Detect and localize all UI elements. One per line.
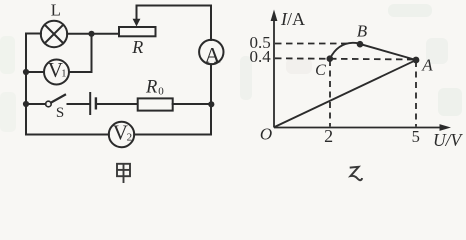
label V2 inside meter [113,121,132,145]
svg-text:S: S [56,105,64,121]
wire lamp to node [67,33,91,35]
switch S [46,95,65,107]
node junction left lower [23,101,29,107]
graph x-axis arrowhead [440,124,452,131]
svg-text:0: 0 [158,86,164,98]
graph x-axis [274,127,442,129]
lamp L [41,21,67,47]
dashed line U=2 [329,60,331,127]
label V1 inside meter [48,58,67,82]
wire switch row left [26,103,46,105]
rheostat R body [119,27,156,36]
svg-text:B: B [357,22,368,41]
node junction right [208,101,214,107]
svg-text:O: O [260,124,272,143]
node junction left upper [23,69,29,75]
svg-text:0.4: 0.4 [250,47,272,66]
wire switch to battery [68,103,90,105]
svg-text:1: 1 [61,68,66,79]
node junction lamp branch [88,31,94,37]
svg-text:C: C [315,62,326,79]
wire battery to R0 [97,103,138,105]
wire right vertical lower [210,64,212,134]
watermark smudge right lower [438,88,462,116]
dashed line I=0.5 [275,43,348,45]
point B [357,41,364,48]
watermark smudge mid gray [286,58,312,74]
rheostat wiper arrow [133,6,141,27]
svg-text:A: A [421,55,433,74]
wire left vertical [25,34,27,135]
wire R0 to right [173,103,211,105]
line O to A [275,60,416,127]
wire right vertical upper [210,6,212,41]
label jia (甲) [117,164,130,183]
watermark smudge right [426,38,448,64]
dashed line I=0.4 [275,58,416,59]
curve C B A [330,43,416,60]
background paper [0,0,466,187]
label R0 [145,78,164,98]
watermark smudge left lower [0,92,16,132]
voltmeter V1 [44,60,69,85]
battery [90,93,96,114]
svg-text:I/A: I/A [280,9,305,29]
svg-text:2: 2 [324,126,333,146]
wire node vertical [91,34,93,72]
watermark smudge center [240,56,252,100]
wire V1 row left [26,71,44,73]
svg-text:R: R [145,78,157,98]
watermark smudge left upper [0,36,15,74]
wire lamp row left [26,33,41,35]
svg-text:L: L [51,1,61,20]
wire top [137,5,212,7]
label yi (乙) [350,167,362,180]
svg-text:U/V: U/V [433,130,464,150]
voltmeter V2 [109,122,134,147]
wire node to rheostat [92,33,120,35]
resistor R0 body [138,98,173,110]
point A [413,57,420,64]
graph y-axis [273,14,275,128]
svg-text:5: 5 [412,127,420,146]
watermark smudge top right [388,4,432,17]
wire V1 row right [69,71,92,73]
wire bottom left [26,134,109,136]
wire bottom right [134,134,211,136]
dashed line U=5 [415,61,417,127]
point C [327,55,334,62]
svg-text:A: A [205,42,221,67]
svg-text:2: 2 [127,132,133,144]
graph y-axis arrowhead [271,10,278,22]
svg-text:R: R [131,37,143,57]
ammeter A [199,40,223,64]
